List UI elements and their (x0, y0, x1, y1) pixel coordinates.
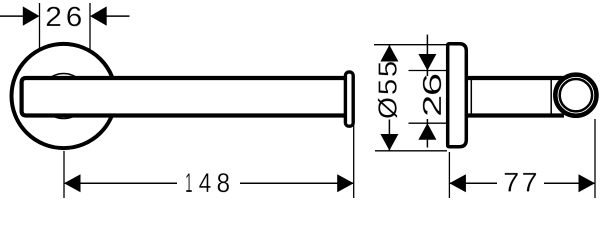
dim 26 (top): extension lines (39, 3, 41, 49)
dim 148 (bottom): extension lines (63, 151, 65, 198)
glyph t77b (523, 173, 536, 192)
dim 26 leaders and arrows (outside, pointing in) (0, 15, 24, 17)
ring outer (555, 75, 596, 116)
junction line (550, 78, 552, 116)
arm bottom edge (466, 113, 564, 117)
dim D55: extension lines (374, 44, 447, 46)
glyph s26b (423, 75, 442, 95)
dim 77 line + arrows (449, 182, 497, 184)
glyph t148a (186, 173, 192, 192)
glyph s26a (423, 97, 441, 115)
inner post circle (41, 74, 86, 119)
ring inner (560, 79, 592, 111)
glyph t148c (218, 173, 229, 192)
dim 26 line + arrows (outside) (426, 35, 428, 76)
glyph t148b (199, 173, 210, 192)
wall rose circle (12, 44, 116, 148)
dim D55 line + arrows (388, 45, 390, 61)
dim 77: extension lines (448, 152, 450, 198)
rose side profile (448, 44, 467, 147)
dim 148 line + arrows (64, 182, 177, 184)
flare line (470, 78, 472, 116)
glyph tO (378, 98, 397, 118)
glyph t26b (67, 7, 81, 27)
roll holder bar (22, 78, 347, 116)
glyph t77a (505, 173, 518, 192)
glyph t26a (47, 7, 61, 26)
end cap (345, 72, 353, 126)
glyph t5b (379, 62, 397, 76)
dim 26 (side): boundary lines (409, 70, 448, 72)
glyph t5a (379, 80, 397, 94)
arm top edge (466, 76, 564, 80)
